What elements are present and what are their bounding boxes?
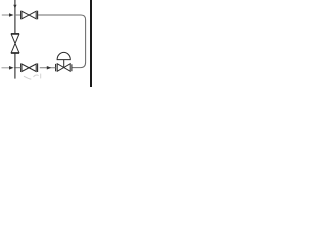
gate valve V1 (top) bowtie body (22, 11, 36, 19)
gate valve V2 (bottom) right end bar (37, 63, 39, 72)
control valve CV1 right end bar (71, 64, 73, 71)
flow arrow right, top-left inlet (9, 13, 14, 17)
control valve CV1 bowtie body (57, 64, 70, 72)
gate valve V3 (vertical, left leg) top end bar (11, 33, 19, 35)
wire: top inlet vertical line (14, 0, 16, 34)
gate valve V2 (bottom) bowtie body (22, 64, 36, 72)
control valve CV1 actuator stem (63, 60, 65, 68)
control valve CV1 diaphragm actuator dome (57, 52, 70, 59)
gate valve V2 (bottom) left end bar (20, 63, 22, 72)
wire: top pipe run to right with rounded corner, down right side, into bottom (38, 15, 86, 68)
gate valve V1 (top) right end bar (37, 11, 39, 20)
node: top-left junction wire to valve V1 (14, 14, 20, 16)
wire: left vertical line lower segment through bottom junction (14, 53, 16, 78)
wire: top-left horizontal inlet line (2, 14, 10, 16)
faint scan squiggle left (24, 76, 31, 79)
flow arrow down on top inlet (13, 5, 16, 9)
gate valve V3 (vertical) bottom end bar (11, 52, 19, 54)
flow arrow right on bottom pipe (47, 66, 52, 70)
wire: bottom-left horizontal inlet line (2, 67, 11, 69)
gate valve V1 (top) left end bar (20, 11, 22, 20)
gate valve V3 (vertical) hourglass body (11, 34, 19, 52)
control valve CV1 left end bar (55, 64, 57, 71)
faint scan mark vertical (40, 74, 42, 79)
background (0, 0, 92, 87)
border line right edge (90, 0, 92, 87)
wire: bottom pipe between valve V2 and control valve (40, 67, 56, 69)
faint scan squiggle right (34, 75, 39, 77)
flow arrow right, bottom-left inlet (9, 66, 14, 70)
wire: bottom-left junction to valve V2 (14, 67, 20, 69)
